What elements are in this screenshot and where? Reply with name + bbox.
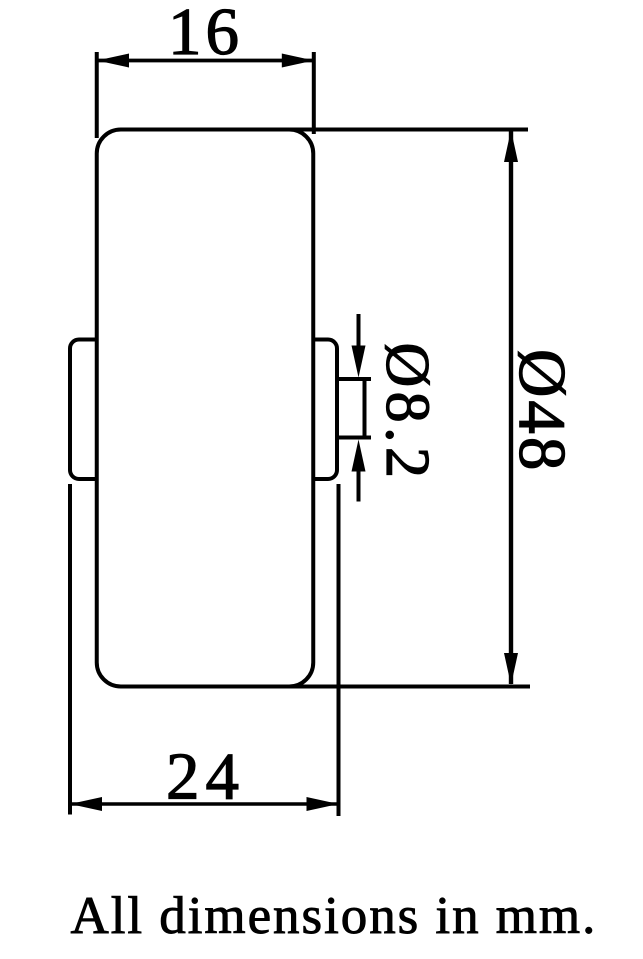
svg-text:Ø48: Ø48	[505, 349, 579, 473]
dim16 arrow right	[282, 54, 314, 68]
dim16 arrow left	[97, 54, 129, 68]
dim24 dimension line	[70, 802, 339, 806]
dim8.2 arrow top	[352, 346, 366, 378]
bore rectangle right of hub	[363, 379, 367, 438]
bore top tick	[339, 377, 371, 381]
dim48 dimension line	[509, 131, 513, 684]
bore bottom tick	[339, 436, 371, 440]
dim16 extension line left	[95, 52, 99, 138]
dim8.2 leader bottom	[357, 468, 361, 502]
hub flange right	[277, 340, 337, 480]
svg-text:All dimensions in mm.: All dimensions in mm.	[71, 887, 598, 945]
hub flange left	[70, 340, 130, 480]
dim48 arrow top	[504, 130, 518, 162]
dim48 extension line bottom	[283, 685, 530, 689]
dim24 arrow right	[307, 797, 339, 811]
svg-text:24: 24	[166, 740, 245, 814]
dim24 arrow left	[70, 797, 102, 811]
dim8.2 leader top	[357, 314, 361, 350]
wheel body	[97, 130, 314, 687]
dim8.2 arrow bottom	[352, 440, 366, 472]
dim16 dimension line	[97, 59, 314, 63]
svg-text:16: 16	[168, 0, 243, 69]
dim16 extension line right	[312, 52, 316, 134]
dim24 extension line left	[68, 484, 72, 815]
svg-text:Ø8.2: Ø8.2	[373, 343, 441, 483]
dim48 arrow bottom	[504, 653, 518, 685]
dim48 extension line top	[290, 128, 528, 132]
dim24 extension line right	[337, 484, 341, 816]
